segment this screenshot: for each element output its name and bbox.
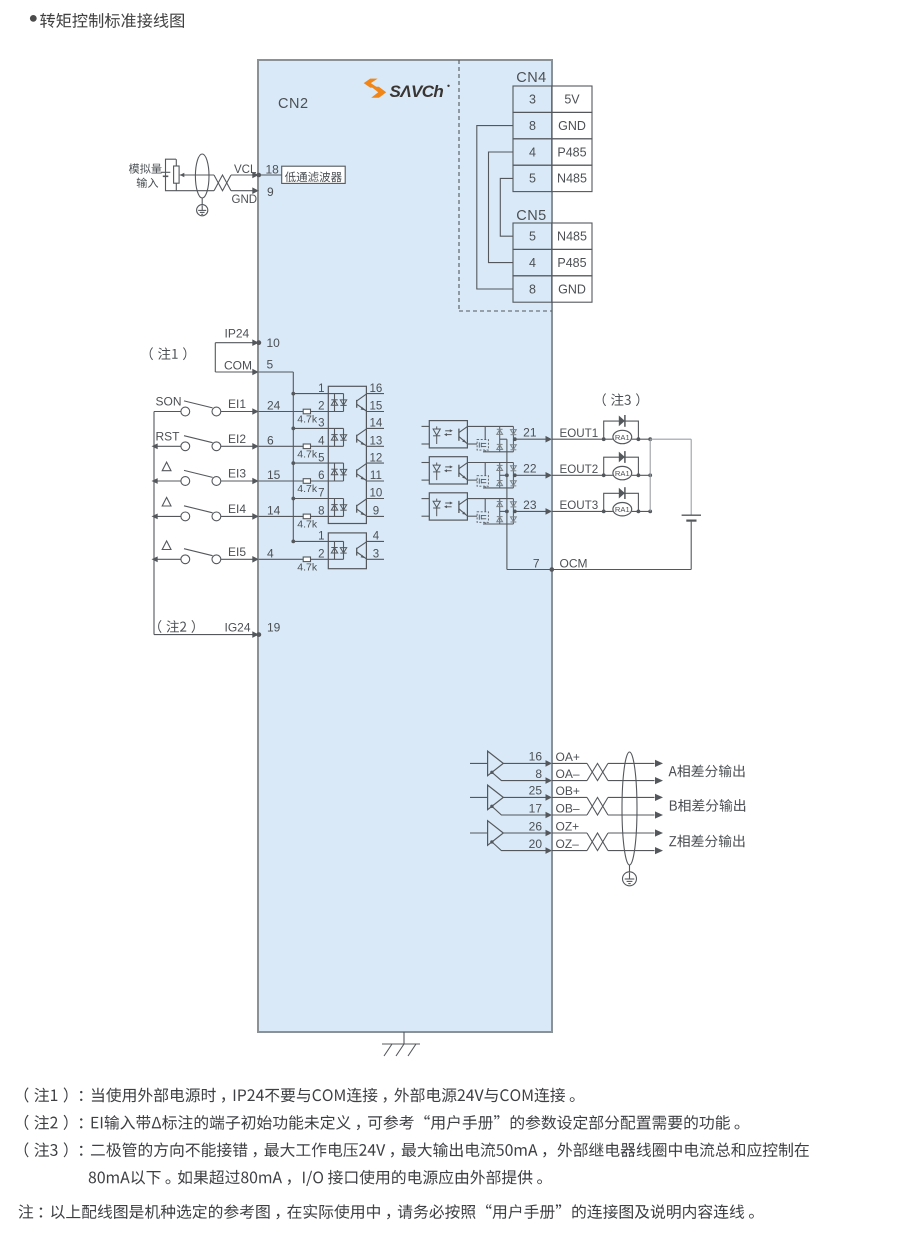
- wire P485 CN4-CN5: [489, 152, 514, 263]
- svg-text:EI5: EI5: [228, 545, 246, 559]
- optocoupler channel EI4 pins 7/8-10/9: [293, 488, 384, 518]
- shield ellipse encoder: [622, 752, 637, 865]
- svg-text:16: 16: [370, 383, 383, 395]
- svg-text:8: 8: [535, 767, 542, 781]
- pin 9: [267, 185, 274, 199]
- svg-text:RA1: RA1: [615, 469, 630, 478]
- svg-text:2: 2: [318, 401, 324, 413]
- note line 5: [19, 1204, 754, 1219]
- svg-text:EOUT2: EOUT2: [560, 463, 599, 476]
- resistor 4.7k EI2: [259, 444, 344, 461]
- svg-text:8: 8: [318, 506, 324, 518]
- svg-text:EOUT3: EOUT3: [560, 499, 599, 512]
- svg-text:10: 10: [267, 336, 281, 350]
- wire IG24 pin19: [154, 631, 261, 638]
- pin 5: [267, 357, 274, 371]
- line driver B phase pins 25/17: [470, 784, 580, 819]
- shield ellipse analog: [195, 154, 209, 198]
- svg-text:IG24: IG24: [224, 620, 250, 634]
- svg-text:19: 19: [267, 621, 281, 635]
- chassis ground: [382, 1032, 420, 1056]
- switch SON / input EI1 pin 24: [154, 395, 281, 416]
- svg-text:9: 9: [373, 506, 379, 518]
- svg-text:17: 17: [529, 801, 543, 815]
- wire GND CN4-CN5: [477, 126, 513, 289]
- svg-text:3: 3: [318, 418, 324, 430]
- line driver Z phase pins 26/20: [470, 819, 579, 854]
- optocoupler channel EI3 pins 5/6-12/11: [293, 452, 384, 482]
- svg-text:18: 18: [266, 163, 280, 177]
- optocoupler U2 outline: [328, 533, 366, 569]
- switch Δ / input EI4 pin 14: [152, 497, 281, 520]
- optocoupler channel EI1 pins 1/2-16/15: [293, 383, 384, 413]
- title 转矩控制标准接线图: [40, 13, 184, 28]
- svg-text:COM: COM: [224, 358, 252, 372]
- svg-text:15: 15: [370, 401, 383, 413]
- svg-text:5V: 5V: [564, 93, 580, 107]
- svg-text:2: 2: [318, 549, 324, 561]
- switch Δ / input EI5 pin 4: [152, 541, 275, 564]
- left input bus: [153, 412, 155, 635]
- svg-text:5: 5: [529, 230, 536, 244]
- svg-text:20: 20: [529, 837, 543, 851]
- pin 19: [267, 621, 281, 635]
- svg-text:21: 21: [523, 426, 537, 440]
- svg-text:8: 8: [529, 282, 536, 296]
- wire N485 CN4-CN5: [500, 178, 513, 236]
- switch Δ / input EI3 pin 15: [152, 462, 281, 485]
- resistor 4.7k EI3: [259, 479, 344, 496]
- pin 7: [533, 556, 540, 570]
- CN2 main interface block: [258, 60, 552, 1032]
- svg-text:EI2: EI2: [228, 432, 246, 446]
- svg-text:OB–: OB–: [556, 802, 580, 816]
- svg-text:14: 14: [370, 418, 383, 430]
- svg-text:N485: N485: [557, 230, 587, 244]
- svg-text:5: 5: [267, 357, 274, 371]
- svg-text:P485: P485: [557, 145, 586, 159]
- wire COM pin5: [215, 369, 258, 376]
- svg-text:OZ–: OZ–: [556, 837, 580, 851]
- svg-text:CN5: CN5: [516, 208, 547, 224]
- CN5 connector table: [513, 208, 592, 302]
- output optocoupler EOUT3 pin 23: [422, 493, 553, 524]
- twisted pair A phase: [552, 760, 663, 784]
- svg-text:5: 5: [529, 172, 536, 186]
- twisted pair analog: [214, 175, 231, 191]
- svg-text:7: 7: [533, 556, 540, 570]
- svg-text:4: 4: [529, 145, 536, 159]
- resistor 4.7k EI1: [259, 409, 344, 426]
- svg-text:4: 4: [318, 436, 325, 448]
- svg-text:IP24: IP24: [225, 327, 250, 341]
- analog input label 模拟量输入: [129, 163, 162, 188]
- wire OCM pin7: [507, 567, 691, 572]
- PE ground analog: [197, 198, 208, 216]
- svg-text:4: 4: [529, 256, 536, 270]
- wire GND analog: [176, 190, 214, 192]
- svg-text:26: 26: [529, 819, 543, 833]
- wire IP24 pin10: [215, 339, 261, 346]
- output optocoupler EOUT1 pin 21: [422, 421, 553, 452]
- wire VCL: [231, 174, 253, 176]
- svg-text:4.7k: 4.7k: [297, 483, 318, 495]
- svg-text:5: 5: [318, 452, 324, 464]
- svg-text:16: 16: [529, 750, 543, 764]
- resistor 4.7k EI4: [259, 514, 344, 531]
- note ref 注3: [603, 393, 640, 406]
- svg-text:EI1: EI1: [228, 397, 246, 411]
- arrow GND pin9: [252, 187, 258, 194]
- svg-text:OA–: OA–: [556, 767, 580, 781]
- relay RA1 on EOUT2: [552, 451, 652, 480]
- svg-text:RA1: RA1: [615, 433, 630, 442]
- svg-text:12: 12: [370, 452, 383, 464]
- relay RA1 on EOUT3: [552, 487, 652, 516]
- svg-text:RST: RST: [156, 429, 181, 443]
- twisted pair Z phase: [552, 829, 663, 854]
- battery ticks source: [161, 172, 171, 176]
- svg-text:4.7k: 4.7k: [297, 414, 318, 426]
- wire pin18 to filter: [259, 174, 282, 176]
- svg-text:3: 3: [373, 549, 379, 561]
- note ref 注2: [158, 620, 195, 633]
- potentiometer wiper arrow: [180, 173, 214, 177]
- svg-text:14: 14: [267, 503, 281, 517]
- IG24 label: [224, 620, 250, 634]
- optocoupler U1 outline: [328, 386, 366, 523]
- svg-text:4.7k: 4.7k: [297, 519, 318, 531]
- svg-text:11: 11: [370, 470, 382, 482]
- optocoupler channel EI5 pins 1/2-4/3: [293, 531, 384, 561]
- note ref 注1: [150, 347, 187, 360]
- svg-text:4: 4: [373, 531, 380, 543]
- dashed partition: [459, 60, 552, 311]
- svg-text:10: 10: [370, 488, 383, 500]
- label A phase output: [669, 765, 745, 778]
- PE ground encoder: [623, 865, 637, 886]
- pin 10: [267, 336, 281, 350]
- svg-text:6: 6: [318, 470, 324, 482]
- svg-text:RA1: RA1: [615, 505, 630, 514]
- switch RST / input EI2 pin 6: [152, 429, 275, 450]
- relay RA1 on EOUT1: [552, 415, 652, 444]
- svg-text:8: 8: [529, 119, 536, 133]
- svg-text:6: 6: [267, 433, 274, 447]
- COM vertical bus: [291, 372, 295, 543]
- svg-text:OA+: OA+: [556, 750, 580, 764]
- svg-text:7: 7: [318, 488, 324, 500]
- note line 4: [89, 1170, 542, 1186]
- svg-text:SON: SON: [156, 395, 182, 409]
- relay supply bus: [650, 439, 691, 511]
- svg-text:15: 15: [267, 468, 281, 482]
- svg-text:4.7k: 4.7k: [297, 449, 318, 461]
- svg-text:CN2: CN2: [278, 96, 309, 112]
- svg-text:CN4: CN4: [516, 70, 547, 86]
- CN4 connector table: [513, 70, 592, 192]
- note line 2: [25, 1115, 740, 1130]
- svg-text:4: 4: [267, 546, 274, 560]
- svg-text:25: 25: [529, 784, 543, 798]
- CN2 label: [278, 96, 309, 112]
- wire COM internal: [259, 371, 294, 373]
- arrow VCL pin18: [252, 172, 261, 179]
- optocoupler channel EI2 pins 3/4-14/13: [293, 418, 384, 448]
- low-pass filter box 低通滤波器: [282, 166, 346, 183]
- note line 3: [25, 1142, 809, 1157]
- svg-text:EOUT1: EOUT1: [560, 427, 599, 440]
- svg-text:24: 24: [267, 399, 281, 413]
- pin 18: [266, 163, 280, 177]
- output optocoupler EOUT2 pin 22: [422, 457, 553, 488]
- IP24-COM bracket: [214, 343, 216, 372]
- label B phase output: [670, 799, 745, 812]
- svg-text:1: 1: [318, 383, 324, 395]
- svg-text:23: 23: [523, 498, 537, 512]
- svg-text:EI3: EI3: [228, 467, 246, 481]
- svg-text:OB+: OB+: [556, 784, 580, 798]
- svg-text:N485: N485: [557, 172, 587, 186]
- svg-text:OZ+: OZ+: [556, 820, 580, 834]
- IP24 label: [225, 327, 250, 341]
- svg-text:OCM: OCM: [560, 556, 588, 570]
- line driver A phase pins 16/8: [470, 750, 580, 784]
- twisted pair B phase: [552, 794, 663, 819]
- svg-text:GND: GND: [558, 282, 586, 296]
- note line 1: [25, 1087, 575, 1102]
- svg-text:3: 3: [529, 93, 536, 107]
- svg-text:22: 22: [523, 462, 537, 476]
- VCL label: [234, 164, 257, 176]
- svg-text:EI4: EI4: [228, 502, 246, 516]
- SANCH logo: [364, 79, 450, 101]
- title bullet: [30, 15, 37, 22]
- GND label: [232, 194, 258, 206]
- svg-text:SΛVCh: SΛVCh: [390, 82, 444, 101]
- potentiometer: [174, 159, 180, 191]
- OCM label: [560, 556, 588, 570]
- wire GND to pin9: [231, 190, 253, 192]
- svg-text:1: 1: [318, 531, 324, 543]
- svg-text:13: 13: [370, 436, 383, 448]
- svg-text:GND: GND: [232, 194, 258, 206]
- svg-text:P485: P485: [557, 256, 586, 270]
- battery external 24V: [682, 439, 701, 569]
- COM label: [224, 358, 252, 372]
- resistor 4.7k EI5: [259, 557, 344, 574]
- OCM common vertical: [500, 439, 509, 569]
- label Z phase output: [669, 835, 744, 848]
- svg-text:4.7k: 4.7k: [297, 562, 318, 574]
- svg-text:9: 9: [267, 185, 274, 199]
- analog source bracket: [166, 159, 177, 191]
- svg-text:GND: GND: [558, 119, 586, 133]
